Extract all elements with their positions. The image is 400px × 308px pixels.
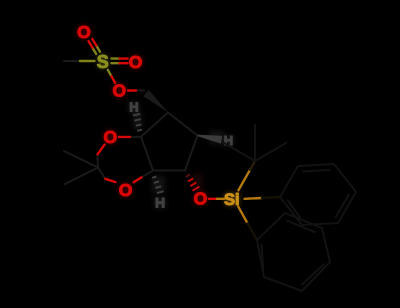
- hashed wedge C3a to H: [133, 114, 142, 131]
- wire ring C4-C5: [168, 113, 198, 136]
- tert-butyl methyl bonds: [224, 125, 286, 161]
- svg-text:Si: Si: [224, 191, 240, 209]
- wire O4-Si silicon half: [217, 198, 225, 200]
- hashed wedge C6a to H: [152, 177, 164, 194]
- svg-text:O: O: [77, 22, 91, 42]
- wire Si-Ph2 carbon half: [248, 223, 257, 240]
- wire C2 methyl lower: [65, 168, 98, 185]
- aromatic inner line b: [335, 194, 349, 218]
- wire Si-Cq carbon half: [250, 161, 255, 170]
- svg-text:O: O: [194, 188, 208, 208]
- svg-text:H: H: [129, 100, 138, 115]
- aromatic inner line a: [302, 170, 330, 172]
- wire Cq methyl up: [254, 125, 256, 161]
- wire C3a-O5 oxygen half: [119, 136, 130, 138]
- wire Si-Ph1 silicon half: [245, 197, 263, 200]
- wire Si-Ph2 silicon half: [238, 207, 247, 224]
- wire methyl-S carbon half: [64, 60, 80, 62]
- aromatic inner line a: [287, 221, 316, 233]
- svg-text:O: O: [119, 180, 133, 200]
- wire Cq methyl right: [255, 143, 286, 161]
- double bond S=O2 line b: [112, 62, 120, 64]
- wire Si-Ph1 carbon half: [262, 197, 280, 198]
- wire ring C6a-C3a: [141, 137, 153, 171]
- svg-text:S: S: [97, 52, 109, 72]
- wire methyl-S sulfur half: [80, 60, 95, 62]
- aromatic inner line c: [262, 243, 264, 270]
- double bond S=O1 line a: [96, 45, 100, 51]
- wire ring C6-C6a: [153, 170, 185, 172]
- wire C3a-O5 carbon half: [130, 136, 141, 138]
- svg-text:O: O: [129, 52, 143, 72]
- wire O5-C2 carbon half: [97, 154, 100, 167]
- aromatic inner line c: [287, 199, 301, 219]
- wire O3-CH2 carbon half: [136, 90, 144, 92]
- wire O5-C2 oxygen half: [98, 145, 105, 155]
- svg-text:O: O: [103, 127, 117, 147]
- aromatic inner line b: [302, 264, 325, 285]
- wire ring C3a-C4: [141, 113, 168, 137]
- wire S-O3 sulfur half: [108, 70, 112, 77]
- svg-text:O: O: [112, 80, 126, 100]
- hashed wedge C6 to O4 (silyl ether oxygen): [186, 174, 200, 190]
- svg-text:H: H: [155, 195, 165, 211]
- wire C2 methyl upper: [64, 151, 98, 168]
- wedge bond C5 to H (bold): [198, 135, 223, 144]
- wire ring C5-C6: [185, 136, 198, 171]
- wire C6a-O6 carbon half: [142, 171, 154, 178]
- phenyl ring 2 (below Si): [257, 213, 330, 291]
- wire O3-CH2 oxygen half: [128, 89, 136, 91]
- wire C6a-O6 oxygen half: [134, 177, 142, 182]
- glow halo layer (JPEG-like bloom around bright glyphs): [77, 22, 240, 209]
- wire O6-C2 oxygen half: [105, 179, 115, 182]
- wire Cq methyl left: [224, 143, 255, 161]
- wire O6-C2 carbon half: [98, 168, 105, 179]
- phenyl ring 1 (right of Si): [280, 164, 356, 225]
- wire O4-Si oxygen half: [209, 198, 217, 200]
- wire S-O3 oxygen half: [112, 76, 116, 83]
- double bond S=O1 line b: [92, 48, 96, 54]
- wedge bond C4 to CH2 (bold, toward viewer): [143, 90, 168, 113]
- double bond S=O2 line a: [112, 57, 120, 59]
- wire Si-Cq silicon half: [238, 170, 250, 191]
